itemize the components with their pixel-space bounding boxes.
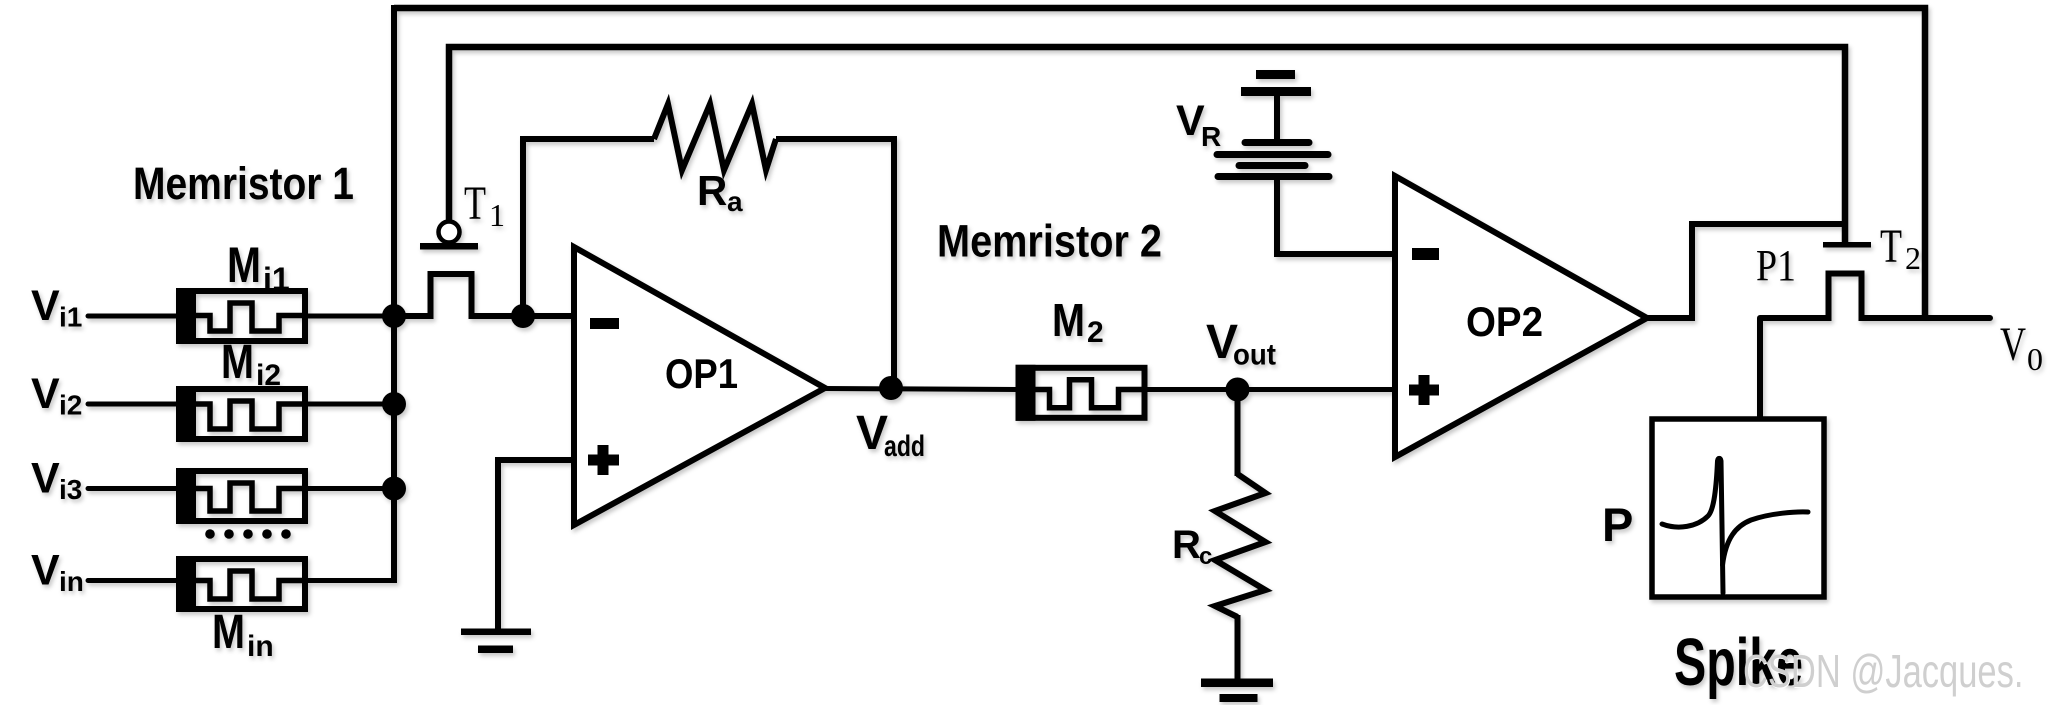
wire T2 drain down to scope box: [1757, 318, 1763, 421]
svg-text:i3: i3: [59, 474, 82, 505]
memristor Mi3: [176, 468, 306, 524]
label Rc: [1172, 523, 1212, 570]
svg-text:add: add: [884, 430, 925, 463]
transistor T1 gate bar: [420, 243, 478, 250]
svg-text:M: M: [1052, 294, 1085, 346]
node Vadd dot: [879, 376, 903, 400]
svg-text:Memristor 2: Memristor 2: [937, 216, 1162, 267]
svg-text:V: V: [2000, 318, 2026, 371]
svg-text:V: V: [31, 455, 60, 503]
ground under OP1: [461, 629, 531, 654]
svg-text:a: a: [727, 186, 743, 217]
svg-text:R: R: [1172, 523, 1201, 567]
label Vi3: [31, 455, 82, 506]
svg-text:V: V: [31, 282, 60, 330]
wire Mi3 to bus: [306, 486, 396, 491]
svg-text:M: M: [221, 336, 254, 389]
wire Vout down to Rc: [1235, 390, 1241, 477]
label Mi2: [221, 336, 281, 392]
label Vout: [1206, 316, 1276, 372]
svg-text:T: T: [464, 177, 486, 230]
svg-text:Memristor 1: Memristor 1: [133, 158, 354, 209]
label M2: [1052, 294, 1104, 349]
transistor T2 gate bar: [1823, 242, 1871, 248]
svg-text:R: R: [697, 167, 727, 214]
node junction dot Vi3/bus: [382, 477, 406, 501]
wire Vi2 lead: [88, 402, 178, 407]
node junction dot inverting input: [511, 304, 535, 328]
op-amp OP1 plus sign: [588, 445, 619, 475]
wire Rc to ground: [1235, 615, 1241, 681]
label Vin: [31, 547, 84, 598]
wire Vi3 lead: [88, 486, 178, 491]
svg-text:0: 0: [2027, 341, 2043, 377]
resistor Rc zigzag: [1215, 474, 1266, 617]
wire Min to bus: [306, 578, 397, 583]
label T1: [464, 177, 505, 233]
wire VR to OP2 minus input: [1277, 180, 1397, 254]
op-amp OP2 plus sign: [1409, 375, 1439, 405]
spike waveform curve: [1662, 458, 1808, 593]
svg-text:V: V: [31, 547, 60, 595]
wire M2 to Vout: [1145, 387, 1240, 392]
watermark CSDN: [1743, 648, 2023, 694]
memristor Mi2: [176, 386, 306, 442]
svg-text:2: 2: [1905, 240, 1921, 276]
label V0: [2000, 318, 2043, 377]
label Vi1: [31, 282, 82, 333]
ellipsis dots between Mi3 and Min: [205, 529, 291, 539]
node Vout dot: [1226, 378, 1250, 402]
label Vadd: [856, 407, 925, 463]
svg-text:out: out: [1233, 339, 1276, 372]
svg-text:V: V: [31, 370, 60, 418]
label VR: [1176, 97, 1221, 152]
svg-text:M: M: [212, 606, 245, 659]
wire feedback right riser to Vadd: [776, 139, 894, 388]
wire bus to OP1 with T1 channel hump: [394, 274, 576, 316]
memristor M2: [1016, 365, 1146, 421]
label T2: [1880, 220, 1921, 276]
svg-text:R: R: [1201, 121, 1221, 152]
op-amp OP2 minus sign: [1412, 248, 1439, 260]
svg-text:c: c: [1199, 543, 1212, 570]
wire top feedback V0 to input bus: [394, 8, 1925, 318]
memristor Mi1: [176, 288, 306, 344]
wire feedback left riser: [523, 139, 654, 316]
svg-text:P1: P1: [1756, 241, 1796, 290]
svg-text:1: 1: [489, 197, 505, 233]
wire OP1 plus input to ground: [498, 460, 576, 630]
wire Vout to OP2 plus input: [1237, 387, 1397, 392]
op-amp OP1 triangle: [574, 247, 825, 525]
label Vi2: [31, 370, 82, 421]
resistor Ra zigzag: [654, 104, 776, 170]
wire OP1 output to M2: [825, 389, 1018, 390]
op-amp OP1 minus sign: [590, 318, 619, 329]
svg-text:OP2: OP2: [1466, 298, 1543, 345]
node junction dot Vi1/bus: [382, 304, 406, 328]
wire Vi1 lead: [88, 314, 178, 319]
svg-text:P: P: [1602, 498, 1633, 551]
ground under Rc: [1201, 679, 1273, 703]
svg-text:i2: i2: [59, 390, 82, 421]
wire Mi1 to bus: [306, 314, 396, 319]
svg-text:i1: i1: [59, 302, 82, 333]
op-amp OP2 triangle: [1395, 176, 1647, 457]
node junction dot Vi2/bus: [382, 392, 406, 416]
wire Mi2 to bus: [306, 402, 396, 407]
wire OP2 output to T2 gate: [1647, 224, 1845, 318]
memristor Min: [176, 556, 306, 612]
label Min: [212, 606, 274, 663]
svg-text:OP1: OP1: [665, 350, 738, 397]
wire Vin lead: [88, 578, 178, 583]
svg-text:2: 2: [1087, 316, 1104, 349]
transistor T1 gate circle: [439, 222, 460, 243]
transistor T2 channel with hump: [1760, 274, 1990, 319]
label Ra: [697, 167, 743, 217]
scope box: [1652, 419, 1824, 597]
label Mi1: [227, 237, 290, 297]
svg-text:in: in: [247, 630, 274, 663]
wire gate control line T1/T2: [449, 47, 1845, 243]
svg-text:T: T: [1880, 220, 1902, 273]
wire input bus vertical: [391, 5, 397, 581]
battery VR: [1217, 70, 1329, 177]
svg-text:M: M: [227, 237, 261, 293]
svg-text:in: in: [59, 566, 84, 597]
